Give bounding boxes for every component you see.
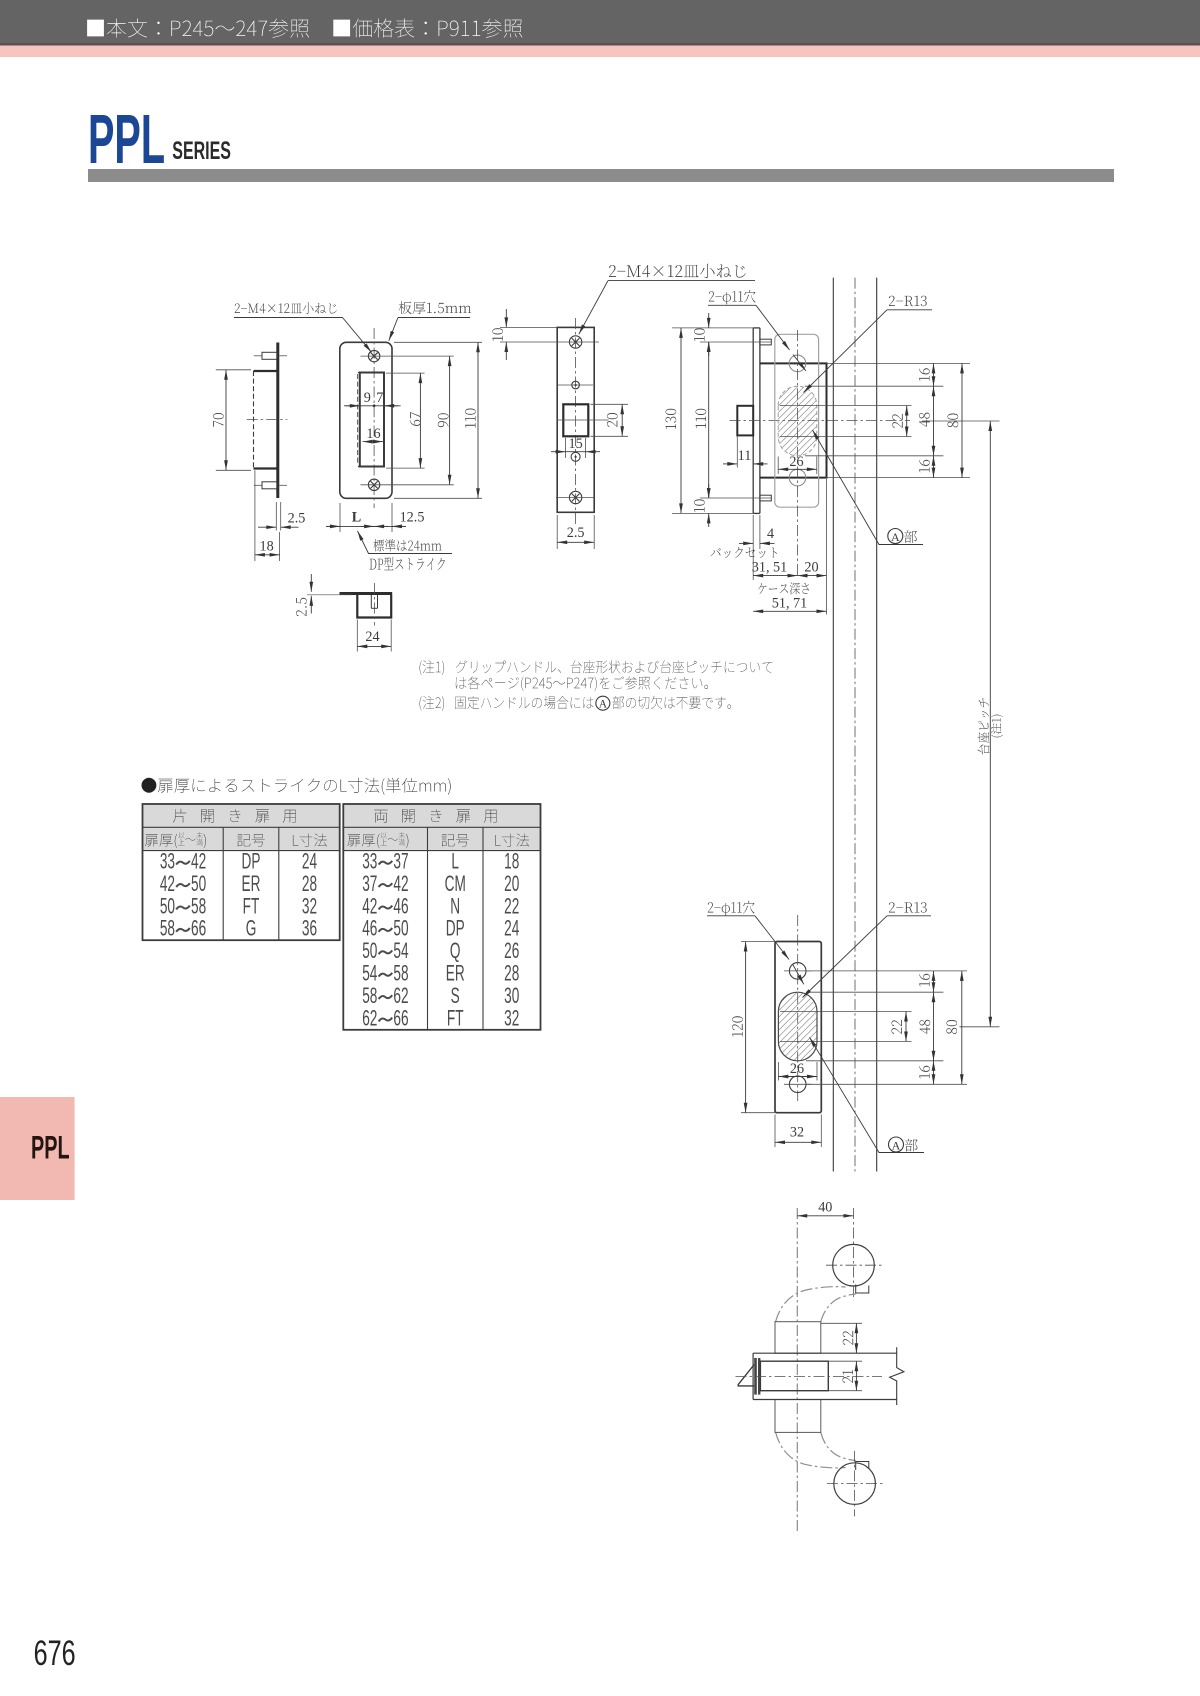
svg-text:31, 51: 31, 51	[752, 560, 787, 576]
svg-text:51, 71: 51, 71	[772, 596, 807, 612]
svg-text:20: 20	[804, 560, 818, 576]
svg-text:A: A	[891, 530, 900, 544]
svg-text:A: A	[892, 1138, 901, 1152]
svg-text:16: 16	[366, 426, 380, 442]
svg-text:32: 32	[504, 1005, 519, 1030]
svg-text:SERIES: SERIES	[172, 137, 231, 164]
svg-text:12.5: 12.5	[400, 510, 425, 526]
svg-text:36: 36	[302, 915, 317, 940]
svg-text:62: 62	[362, 1005, 377, 1030]
svg-text:PPL: PPL	[31, 1130, 70, 1166]
svg-text:40: 40	[818, 1200, 832, 1216]
svg-text:24: 24	[365, 629, 379, 645]
svg-text:G: G	[246, 915, 257, 940]
svg-text:676: 676	[34, 1634, 76, 1673]
svg-text:4: 4	[767, 526, 774, 542]
svg-text:26: 26	[790, 1061, 804, 1077]
svg-text:11: 11	[738, 448, 752, 464]
svg-text:15: 15	[569, 436, 583, 452]
svg-text:66: 66	[191, 915, 206, 940]
svg-text:A: A	[599, 698, 608, 710]
svg-text:32: 32	[790, 1125, 804, 1141]
svg-text:58: 58	[160, 915, 175, 940]
svg-text:18: 18	[260, 539, 274, 555]
svg-text:26: 26	[789, 454, 803, 470]
svg-text:2.5: 2.5	[288, 511, 306, 527]
svg-text:FT: FT	[447, 1005, 464, 1030]
svg-text:7: 7	[376, 390, 383, 406]
svg-text:PPL: PPL	[88, 101, 165, 179]
svg-text:66: 66	[393, 1005, 408, 1030]
svg-text:9: 9	[364, 390, 371, 406]
svg-text:L: L	[352, 510, 361, 526]
svg-text:2.5: 2.5	[567, 525, 585, 541]
